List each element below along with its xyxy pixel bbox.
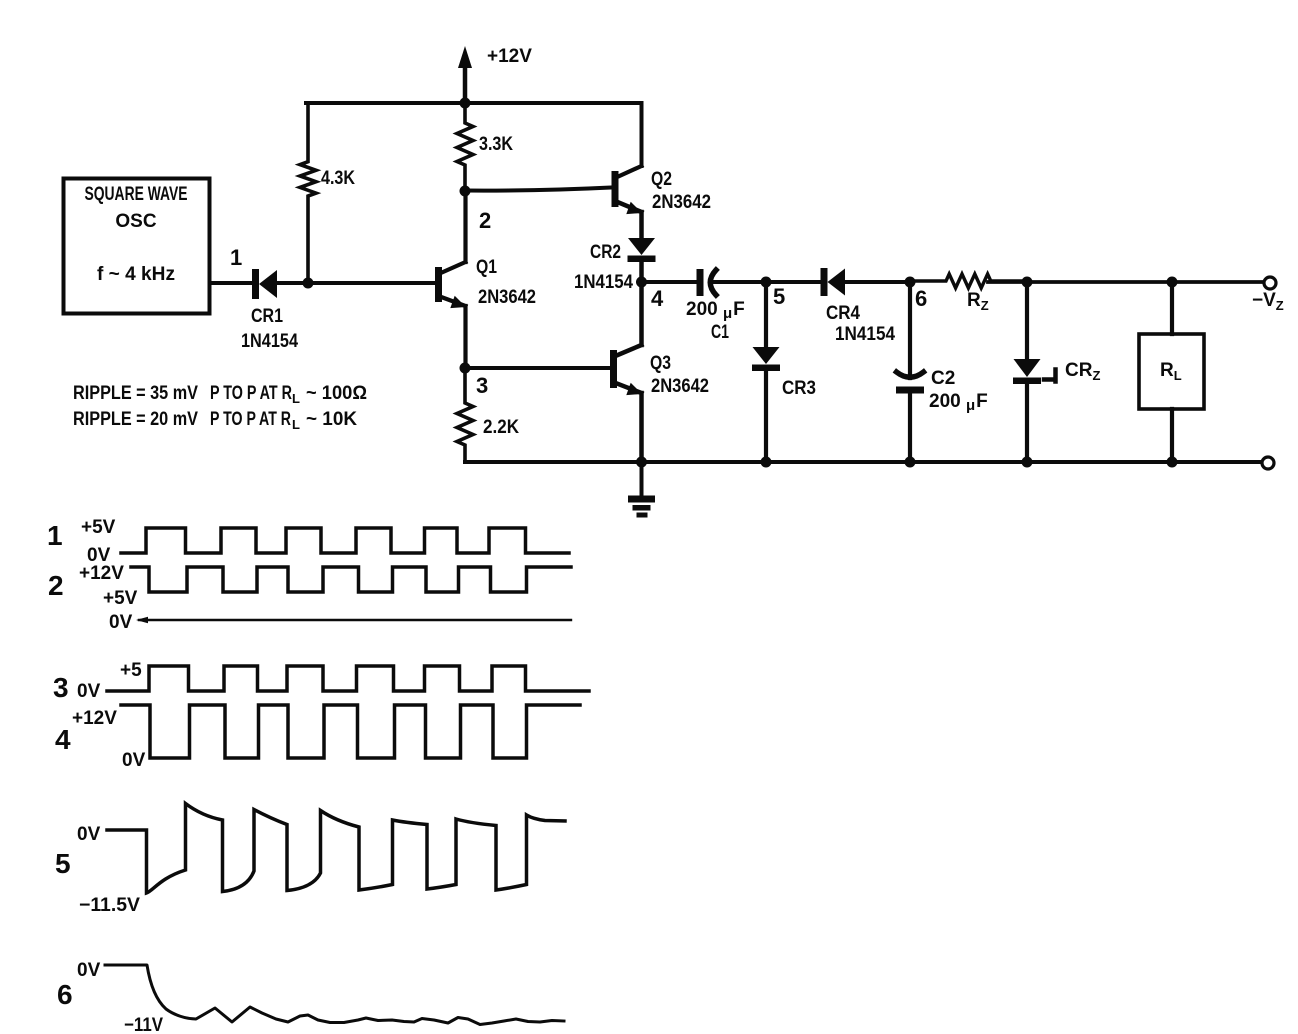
load resistor RL box bbox=[1139, 334, 1204, 409]
svg-text:RIPPLE = 35 mV: RIPPLE = 35 mV bbox=[73, 383, 198, 404]
svg-text:2N3642: 2N3642 bbox=[478, 287, 536, 308]
svg-text:0V: 0V bbox=[109, 612, 133, 633]
svg-text:~ 10K: ~ 10K bbox=[306, 409, 357, 430]
diode CR3 bbox=[764, 282, 768, 347]
node 6 junction dot bbox=[905, 277, 916, 288]
diode CR1 bbox=[252, 269, 277, 299]
ripple note line 1 bbox=[73, 383, 367, 406]
wire CR1 to node junction bbox=[277, 281, 308, 285]
bottom ground rail bbox=[465, 460, 1263, 464]
zener hook mark bbox=[1044, 370, 1056, 382]
wire node 2 to Q2 base bbox=[465, 188, 611, 191]
svg-text:0V: 0V bbox=[122, 750, 146, 771]
svg-text:f ~ 4 kHz: f ~ 4 kHz bbox=[97, 264, 175, 285]
wire RL top bbox=[1170, 282, 1174, 334]
waveform 3 square wave node 3 bbox=[107, 666, 589, 691]
waveform 1 square wave node 1 bbox=[121, 528, 569, 553]
svg-text:6: 6 bbox=[915, 286, 927, 311]
svg-text:CR1: CR1 bbox=[251, 306, 283, 327]
zener diode CRZ bbox=[1025, 282, 1029, 359]
diode CR4 bbox=[821, 268, 846, 296]
node 4 junction dot bbox=[636, 277, 647, 288]
wire from osc box to CR1 bbox=[210, 281, 252, 285]
svg-text:CR2: CR2 bbox=[590, 242, 621, 263]
diode CR2 bbox=[628, 238, 656, 262]
svg-text:C2: C2 bbox=[931, 368, 955, 389]
wire CR4 to node 6 bbox=[845, 280, 910, 284]
resistor 4.3K bbox=[300, 103, 316, 283]
wire node 5 to CR4 bbox=[766, 280, 821, 284]
svg-text:3: 3 bbox=[476, 373, 488, 398]
wire junction to Q1 base bbox=[308, 281, 435, 285]
svg-text:0V: 0V bbox=[77, 960, 101, 981]
svg-text:−11V: −11V bbox=[124, 1015, 163, 1034]
node junction dot at CR1/4.3K bbox=[303, 278, 314, 289]
svg-text:Q1: Q1 bbox=[476, 257, 497, 278]
svg-text:+12V: +12V bbox=[487, 46, 532, 67]
svg-text:+12V: +12V bbox=[79, 563, 124, 584]
ripple note line 2 bbox=[73, 409, 357, 432]
svg-text:1N4154: 1N4154 bbox=[835, 324, 895, 345]
svg-text:+5: +5 bbox=[120, 660, 142, 681]
waveform 2 0V reference line bbox=[139, 619, 571, 621]
svg-text:+5V: +5V bbox=[103, 588, 138, 609]
junction dot CRZ top bbox=[1022, 277, 1033, 288]
junction dot RL at rail bbox=[1167, 457, 1178, 468]
wire CR2 to node 4 bbox=[639, 260, 644, 282]
svg-text:2: 2 bbox=[48, 570, 64, 601]
waveform 4 square wave node 4 bbox=[121, 705, 580, 758]
svg-text:0V: 0V bbox=[77, 681, 101, 702]
+12V supply arrow bbox=[463, 62, 468, 103]
resistor 3.3K bbox=[457, 103, 473, 191]
svg-text:CR4: CR4 bbox=[826, 303, 860, 324]
svg-text:C1: C1 bbox=[711, 322, 729, 343]
svg-text:Q2: Q2 bbox=[651, 169, 672, 190]
waveform 2 square wave node 2 bbox=[131, 567, 571, 592]
svg-text:RZ: RZ bbox=[967, 290, 989, 313]
svg-text:6: 6 bbox=[57, 979, 73, 1010]
svg-text:−11.5V: −11.5V bbox=[79, 895, 140, 916]
svg-text:2: 2 bbox=[479, 208, 491, 233]
resistor 2.2K bbox=[457, 368, 473, 462]
wire RL bottom bbox=[1170, 409, 1174, 462]
svg-text:+5V: +5V bbox=[81, 517, 116, 538]
wire node 6 down to C2 bbox=[908, 282, 912, 378]
svg-text:P TO P AT R: P TO P AT R bbox=[210, 383, 292, 404]
junction dot C2 at rail bbox=[905, 457, 916, 468]
node 2 junction dot bbox=[460, 186, 471, 197]
svg-text:2N3642: 2N3642 bbox=[651, 376, 709, 397]
svg-text:4.3K: 4.3K bbox=[321, 168, 355, 189]
resistor RZ bbox=[910, 274, 1027, 288]
output terminal -VZ top bbox=[1264, 277, 1276, 289]
node 5 junction dot bbox=[761, 277, 772, 288]
capacitor C2 200uF bbox=[896, 372, 924, 394]
wire node 3 to Q3 base bbox=[465, 366, 610, 370]
svg-text:P TO P AT R: P TO P AT R bbox=[210, 409, 291, 430]
svg-text:−VZ: −VZ bbox=[1252, 290, 1284, 313]
wire CRZ to rail bbox=[1025, 382, 1029, 462]
junction dot CRZ at rail bbox=[1022, 457, 1033, 468]
svg-text:CR3: CR3 bbox=[782, 378, 816, 399]
junction dot Q3 emitter at rail bbox=[636, 457, 647, 468]
svg-text:L: L bbox=[292, 417, 300, 432]
svg-text:SQUARE WAVE: SQUARE WAVE bbox=[85, 184, 188, 205]
svg-text:2.2K: 2.2K bbox=[483, 417, 519, 438]
svg-text:4: 4 bbox=[651, 286, 664, 311]
svg-text:RL: RL bbox=[1160, 360, 1182, 383]
svg-text:L: L bbox=[292, 391, 300, 406]
wire RZ to CRZ node to RL node to terminal bbox=[988, 280, 1263, 284]
wire node 4 to C1 bbox=[642, 280, 698, 284]
svg-text:2N3642: 2N3642 bbox=[652, 192, 711, 213]
svg-text:1N4154: 1N4154 bbox=[241, 331, 298, 352]
svg-text:+12V: +12V bbox=[72, 708, 117, 729]
waveform 5 sawtooth node 5 bbox=[107, 804, 565, 894]
svg-text:5: 5 bbox=[773, 284, 785, 309]
svg-text:0V: 0V bbox=[77, 824, 101, 845]
ground symbol bbox=[628, 462, 655, 518]
svg-text:CRZ: CRZ bbox=[1065, 360, 1100, 383]
wire CR3 to rail bbox=[764, 370, 768, 462]
svg-text:1: 1 bbox=[47, 520, 63, 551]
waveform 6 ripple decay node 6 bbox=[105, 965, 564, 1025]
svg-text:Q3: Q3 bbox=[650, 353, 671, 374]
svg-text:3.3K: 3.3K bbox=[479, 134, 513, 155]
svg-text:1: 1 bbox=[230, 245, 242, 270]
svg-text:5: 5 bbox=[55, 848, 71, 879]
svg-text:3: 3 bbox=[53, 672, 69, 703]
svg-text:~ 100Ω: ~ 100Ω bbox=[306, 383, 367, 404]
top +12V rail wire bbox=[306, 103, 642, 166]
svg-text:1N4154: 1N4154 bbox=[574, 272, 633, 293]
oscillator box SQUARE WAVE OSC bbox=[64, 179, 210, 314]
capacitor C1 200uF bbox=[697, 269, 717, 296]
svg-text:OSC: OSC bbox=[115, 211, 156, 232]
transistor Q2 bbox=[612, 166, 643, 239]
svg-text:4: 4 bbox=[55, 724, 71, 755]
wire C2 to rail bbox=[908, 393, 912, 462]
junction dot +12V at rail bbox=[460, 98, 471, 109]
junction dot RL top bbox=[1167, 277, 1178, 288]
junction dot CR3 at rail bbox=[761, 457, 772, 468]
output terminal bottom bbox=[1262, 457, 1274, 469]
svg-text:200 μF: 200 μF bbox=[929, 391, 988, 414]
transistor Q1 bbox=[435, 191, 466, 368]
svg-text:RIPPLE = 20 mV: RIPPLE = 20 mV bbox=[73, 409, 198, 430]
wire C1 to node 5 bbox=[714, 280, 766, 284]
svg-text:200 μF: 200 μF bbox=[686, 299, 745, 322]
node 3 junction dot bbox=[460, 363, 471, 374]
transistor Q3 bbox=[610, 282, 642, 462]
